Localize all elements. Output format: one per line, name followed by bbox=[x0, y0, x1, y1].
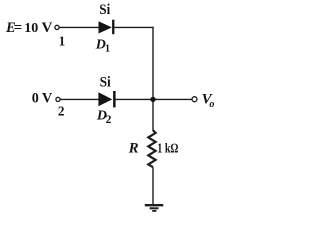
svg-text:Si: Si bbox=[99, 2, 110, 18]
svg-text:2: 2 bbox=[106, 114, 112, 126]
svg-text:1: 1 bbox=[59, 33, 66, 48]
svg-text:0 V: 0 V bbox=[32, 91, 53, 107]
svg-text:10: 10 bbox=[24, 21, 38, 36]
svg-text:o: o bbox=[209, 99, 214, 110]
svg-text:2: 2 bbox=[58, 103, 65, 118]
svg-text:V: V bbox=[42, 20, 53, 36]
svg-text:Si: Si bbox=[100, 74, 111, 90]
svg-text:=: = bbox=[14, 20, 23, 36]
svg-text:1: 1 bbox=[105, 43, 110, 54]
svg-text:R: R bbox=[128, 140, 139, 156]
svg-text:1 kΩ: 1 kΩ bbox=[157, 140, 178, 155]
